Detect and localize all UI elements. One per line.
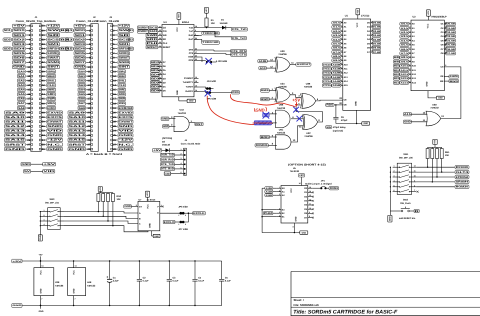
svg-text:PHI: PHI (147, 42, 158, 45)
svg-text:10K: 10K (117, 198, 122, 201)
svg-text:SA7: SA7 (79, 102, 86, 105)
svg-text:3: 3 (160, 80, 161, 83)
svg-text:GND: GND (438, 97, 443, 100)
svg-text:SINT: SINT (47, 66, 60, 69)
svg-text:2: 2 (279, 189, 280, 192)
svg-text:13: 13 (309, 194, 311, 197)
svg-text:GND: GND (39, 235, 42, 240)
svg-text:DTE_RxD: DTE_RxD (161, 168, 174, 171)
svg-text:GND: GND (426, 81, 429, 86)
svg-text:A6.5: A6.5 (401, 48, 410, 51)
blue cut mark on JP2 (205, 58, 211, 64)
svg-text:SD7: SD7 (75, 61, 87, 64)
svg-text:SA8: SA8 (79, 107, 86, 110)
svg-text:13: 13 (340, 66, 342, 69)
svg-text:7: 7 (409, 47, 410, 50)
capacitor C3 0.1uF (167, 260, 179, 306)
svg-text:2: 2 (394, 170, 395, 173)
svg-text:+5V: +5V (434, 139, 437, 143)
svg-text:A15: A15 (404, 113, 412, 116)
svg-text:SA11: SA11 (5, 121, 27, 124)
svg-text:SD2: SD2 (75, 38, 87, 41)
svg-text:GND: GND (47, 134, 62, 137)
svg-text:10K: 10K (445, 154, 450, 157)
svg-text:+5V: +5V (205, 8, 208, 12)
svg-text:CS: CS (163, 26, 167, 29)
svg-text:B14: B14 (394, 82, 400, 85)
svg-text:GND: GND (75, 66, 86, 69)
svg-text:9: 9 (414, 179, 415, 182)
ground flag SW bus (388, 211, 392, 222)
svg-text:RESET: RESET (163, 46, 171, 49)
svg-text:CLK: CLK (163, 42, 168, 45)
svg-text:BD7: BD7 (151, 61, 160, 64)
svg-text:GND: GND (22, 163, 31, 166)
GND rail wire (22, 305, 222, 307)
svg-text:EPROM4: EPROM4 (456, 176, 469, 179)
U4 serial pins TxD RxD (189, 25, 199, 41)
svg-text:A10.5: A10.5 (401, 65, 409, 68)
connector J1 Conn_02x28_Top_Bottom (3, 16, 69, 151)
svg-text:GND: GND (149, 223, 152, 228)
wire DTE to label (199, 49, 215, 51)
svg-text:VCC: VCC (426, 23, 429, 28)
svg-text:14: 14 (340, 71, 342, 74)
svg-text:SRD: SRD (47, 93, 55, 96)
svg-text:HM62256BLP: HM62256BLP (432, 16, 448, 19)
svg-text:C/D: C/D (163, 30, 167, 33)
svg-text:D7.5B: D7.5B (373, 51, 381, 54)
svg-text:add RESET btn: add RESET btn (399, 217, 416, 220)
label RXC0CUR on RxC (194, 38, 202, 40)
svg-text:GND: GND (355, 101, 358, 106)
resistor network RN2 10K (97, 186, 122, 201)
svg-text:10: 10 (309, 207, 311, 210)
U7 ground wire (152, 231, 161, 238)
jumper JP5 5/2B bridged (199, 91, 232, 100)
svg-text:5: 5 (409, 38, 410, 41)
svg-text:+5V: +5V (146, 192, 149, 196)
+5V rail label (12, 259, 23, 263)
svg-text:SWR: SWR (119, 98, 126, 101)
svg-text:D6.5B: D6.5B (446, 48, 455, 51)
blue label box on U6B pin4 (263, 113, 277, 117)
svg-text:5: 5 (160, 72, 161, 75)
svg-text:SND: SND (119, 125, 133, 128)
svg-text:PHI2: PHI2 (264, 212, 273, 215)
svg-text:DTE: DTE (189, 49, 194, 52)
svg-text:SA10: SA10 (69, 116, 87, 119)
svg-text:WR: WR (163, 34, 167, 37)
svg-text:SIORQ: SIORQ (119, 52, 129, 55)
svg-text:DTE_TxC: DTE_TxC (232, 37, 246, 40)
U1 data pins D0-D7 (367, 20, 381, 53)
svg-text:SA2: SA2 (79, 79, 86, 82)
svg-text:74HC02: 74HC02 (178, 112, 187, 115)
svg-text:3: 3 (409, 30, 410, 33)
svg-text:GND: GND (119, 134, 133, 137)
svg-text:3: 3 (394, 175, 395, 178)
svg-text:0.1uF: 0.1uF (198, 280, 205, 283)
svg-text:A9.5: A9.5 (333, 59, 342, 62)
svg-text:D2.5B: D2.5B (446, 31, 455, 34)
svg-text:D1.5B: D1.5B (373, 26, 381, 29)
power unit U4E 74HC32 (68, 260, 96, 306)
svg-text:SA10: SA10 (5, 116, 26, 119)
svg-text:A8.5: A8.5 (401, 56, 410, 59)
svg-text:10: 10 (414, 175, 416, 178)
svg-text:OE: OE (344, 104, 348, 107)
svg-text:15: 15 (309, 186, 311, 189)
svg-text:7: 7 (41, 298, 42, 301)
svg-text:SIORQ: SIORQ (47, 52, 59, 55)
svg-text:RD5: RD5 (326, 104, 334, 107)
svg-text:GND: GND (165, 172, 170, 175)
svg-text:VID: VID (119, 130, 134, 133)
U5 VCC flag (299, 174, 305, 186)
svg-text:VCC: VCC (290, 188, 293, 193)
svg-text:A7.5: A7.5 (333, 51, 342, 54)
SW1 left bus to ground (390, 167, 391, 211)
blue highlighted label on U6B pin5 (254, 121, 277, 125)
svg-text:3: 3 (279, 193, 280, 196)
U5 select input pins (265, 186, 286, 197)
svg-text:SNMI: SNMI (119, 61, 130, 64)
svg-text:74HC02: 74HC02 (430, 107, 439, 110)
svg-text:U6C: U6C (279, 129, 284, 132)
svg-text:12: 12 (414, 165, 416, 168)
svg-text:8251A: 8251A (182, 21, 189, 24)
svg-text:BD5: BD5 (151, 69, 160, 72)
svg-text:DSR_RxD: DSR_RxD (161, 158, 174, 161)
svg-text:11: 11 (309, 203, 311, 206)
svg-text:GND: GND (389, 216, 392, 221)
label DTE_RTS (231, 49, 247, 52)
svg-text:8: 8 (409, 51, 410, 54)
svg-text:A1.5: A1.5 (333, 26, 342, 29)
svg-text:SRST: SRST (147, 46, 158, 49)
svg-text:27C10: 27C10 (323, 63, 332, 66)
svg-text:23: 23 (195, 55, 197, 58)
svg-text:DSRDY: DSRDY (138, 26, 148, 29)
svg-text:SA1: SA1 (18, 75, 25, 78)
svg-text:DSR_TxD: DSR_TxD (161, 154, 174, 157)
svg-text:A5.5: A5.5 (333, 43, 342, 46)
svg-text:TxEMPTY: TxEMPTY (183, 81, 194, 84)
svg-text:CLK: CLK (119, 84, 126, 87)
svg-text:GND: GND (119, 148, 133, 151)
svg-text:U3D: U3D (280, 50, 285, 53)
svg-text:SA8: SA8 (18, 107, 25, 110)
svg-text:D0.5B: D0.5B (373, 22, 381, 25)
svg-text:DTE_RTS: DTE_RTS (231, 50, 246, 53)
svg-text:SD3: SD3 (4, 38, 12, 41)
note 470pF delay optional (326, 126, 347, 133)
svg-text:19: 19 (195, 25, 197, 28)
svg-text:RXD: RXD (232, 91, 239, 94)
svg-text:11: 11 (340, 58, 342, 61)
svg-text:SD3: SD3 (13, 43, 26, 46)
wire TxC to label (199, 31, 216, 33)
svg-text:7: 7 (341, 41, 342, 44)
svg-text:SRFSH: SRFSH (119, 48, 130, 51)
title block frame (291, 272, 480, 316)
svg-text:+5V: +5V (75, 25, 86, 28)
svg-text:WE: WE (440, 80, 444, 83)
svg-text:BA9: BA9 (261, 89, 269, 92)
U7 ST gnd input (124, 204, 138, 208)
svg-text:VCC: VCC (72, 270, 75, 275)
svg-text:SBAK: SBAK (47, 75, 55, 78)
svg-text:D2.5B: D2.5B (373, 30, 381, 33)
svg-text:16: 16 (299, 182, 301, 185)
svg-text:RN1: RN1 (445, 151, 450, 154)
svg-text:GND: GND (72, 288, 75, 293)
svg-text:SA7: SA7 (18, 102, 25, 105)
svg-text:+5V: +5V (427, 10, 430, 14)
svg-text:A10B: A10B (333, 63, 341, 66)
svg-text:SA11: SA11 (69, 121, 87, 124)
svg-text:7: 7 (414, 189, 415, 192)
connector J2 Conn_01x28 (66, 16, 99, 151)
power flag above U2 (427, 10, 431, 20)
svg-text:ROM30: ROM30 (456, 186, 469, 189)
svg-text:D3.5B: D3.5B (446, 35, 455, 38)
J4 GND pin (164, 172, 179, 175)
svg-text:GND: GND (13, 66, 25, 69)
blue cut mark on JP5 (205, 90, 211, 96)
svg-text:1: 1 (178, 214, 179, 217)
SW3 left bus and ground (38, 211, 42, 241)
svg-text:+5V: +5V (178, 14, 181, 18)
svg-text:25: 25 (159, 41, 161, 44)
svg-text:Conn_01x06_Male: Conn_01x06_Male (181, 143, 201, 146)
svg-text:EXCLK: EXCLK (193, 212, 205, 215)
svg-text:SA15: SA15 (69, 139, 87, 142)
red +5V annotation with arrow (292, 98, 301, 107)
svg-text:6: 6 (180, 171, 181, 174)
gate U6D 74HC02 (404, 103, 445, 126)
power unit U3E 74HC86 (34, 260, 64, 306)
svg-text:U6B: U6B (279, 104, 284, 107)
svg-text:D0.5B: D0.5B (446, 23, 455, 26)
svg-text:Sheet: /: Sheet: / (294, 298, 304, 302)
svg-text:74LS138: 74LS138 (290, 170, 300, 173)
U4 status pins SYNDET TxEMPTY TxRDY RxRDY (183, 76, 199, 93)
svg-text:A0.5: A0.5 (333, 22, 342, 25)
svg-text:TXD0CUR: TXD0CUR (203, 32, 219, 35)
svg-text:VCC: VCC (40, 270, 43, 275)
connector J4 Conn_01x06_Male (180, 139, 201, 176)
note OPTION D2 1N4148 (162, 137, 172, 147)
svg-text:D4.5B: D4.5B (446, 40, 455, 43)
wire TxD to D1 (199, 27, 223, 29)
svg-text:SA14: SA14 (5, 134, 26, 137)
label RXD (232, 91, 240, 94)
svg-text:SWR: SWR (47, 98, 55, 101)
svg-text:4: 4 (394, 179, 395, 182)
svg-text:BD6: BD6 (151, 65, 160, 68)
U4 modem pins DTR CTS DSR DTS (188, 48, 198, 63)
svg-text:1: 1 (180, 148, 181, 151)
svg-text:SRES: SRES (47, 102, 55, 105)
svg-text:SA12: SA12 (5, 125, 26, 128)
svg-text:27C13: 27C13 (323, 76, 332, 79)
label DTE_CTS (199, 53, 227, 55)
svg-text:SD5: SD5 (13, 52, 26, 55)
U4 data bus pins D7-D0 (150, 60, 166, 93)
U2 data pins (441, 22, 456, 56)
svg-text:SR: SR (119, 34, 130, 37)
svg-text:6: 6 (279, 207, 280, 210)
svg-text:EXROM: EXROM (119, 107, 133, 110)
svg-text:SNMI: SNMI (47, 61, 59, 64)
svg-text:GND: GND (302, 231, 307, 234)
svg-text:GND: GND (189, 100, 194, 103)
svg-text:GND: GND (39, 310, 44, 313)
svg-text:EXWAIT: EXWAIT (47, 121, 62, 124)
svg-text:A6.5: A6.5 (333, 47, 342, 50)
svg-text:SINT: SINT (119, 66, 130, 69)
svg-text:22: 22 (159, 29, 161, 32)
svg-text:U3B: U3B (306, 82, 311, 85)
+5V flag on rail (39, 254, 43, 262)
U2 CS OE WE pins (440, 64, 459, 83)
GND rail label (12, 304, 23, 308)
svg-text:SM1: SM1 (119, 43, 131, 46)
svg-text:DCB: DCB (188, 56, 193, 59)
svg-text:CTS: CTS (189, 52, 194, 55)
GND flag on rail (39, 305, 44, 313)
svg-text:RxC: RxC (189, 38, 194, 41)
switch SW2 SW_Push reset (390, 199, 419, 213)
svg-text:0.1uF: 0.1uF (225, 280, 232, 283)
svg-text:A2.5: A2.5 (401, 31, 410, 34)
svg-text:A3.5: A3.5 (401, 35, 410, 38)
svg-text:470pF: 470pF (341, 119, 348, 122)
gate U3D 74HC86 top (258, 50, 311, 72)
svg-text:EXRO: EXRO (47, 107, 55, 110)
svg-text:74HC86: 74HC86 (278, 53, 287, 56)
svg-text:SA5: SA5 (18, 93, 25, 96)
svg-text:SRD: SRD (147, 38, 158, 41)
svg-text:3.3uF: 3.3uF (113, 280, 120, 283)
svg-text:RxD: RxD (189, 34, 194, 37)
svg-text:10: 10 (340, 54, 342, 57)
svg-text:74HC32: 74HC32 (277, 107, 286, 110)
svg-text:GND: GND (12, 304, 22, 307)
svg-text:SW_Push: SW_Push (400, 202, 411, 205)
label DTE_TxC (232, 36, 247, 39)
svg-text:11: 11 (414, 170, 416, 173)
jumper JP2 5/2B (199, 57, 228, 63)
svg-text:3: 3 (44, 219, 45, 222)
svg-text:A12.5: A12.5 (401, 73, 409, 76)
diode D1 1N4148 (220, 19, 232, 30)
svg-text:SW2: SW2 (403, 199, 409, 202)
svg-text:2: 2 (185, 214, 186, 217)
resistor network RN1 10K (426, 139, 450, 158)
svg-text:SA0: SA0 (79, 70, 86, 73)
svg-text:4: 4 (341, 29, 342, 32)
svg-text:CS: CS (440, 66, 444, 69)
svg-text:A11.5: A11.5 (401, 69, 409, 72)
svg-text:Conn_01x28: Conn_01x28 (76, 20, 99, 23)
svg-text:+5V: +5V (39, 254, 43, 257)
svg-text:1: 1 (161, 204, 162, 207)
net stub VID pair below J1 (24, 170, 31, 173)
svg-text:3: 3 (341, 25, 342, 28)
svg-text:SA12: SA12 (69, 125, 87, 128)
U7 VCC flag (146, 191, 150, 201)
U5 enable pins (263, 207, 285, 218)
svg-text:8: 8 (293, 226, 294, 229)
svg-text:Title: SORDm5 CARTRIDGE for BA: Title: SORDm5 CARTRIDGE for BASIC-F (293, 310, 398, 316)
svg-text:2: 2 (409, 26, 410, 29)
svg-text:D6.5B: D6.5B (373, 47, 381, 50)
svg-text:D4.5B: D4.5B (373, 38, 381, 41)
svg-text:B13: B13 (394, 77, 400, 80)
gate U6C 74HC32 (255, 129, 291, 150)
wire U3C out loop to U3B lower input (296, 105, 322, 122)
svg-text:SD5: SD5 (4, 48, 12, 51)
svg-text:27C15: 27C15 (323, 84, 332, 87)
svg-text:SW1: SW1 (403, 153, 409, 156)
svg-text:BRD: BRD (261, 136, 269, 139)
svg-text:A13: A13 (260, 67, 267, 70)
svg-text:SD1: SD1 (13, 34, 26, 37)
svg-text:JP6 5/2D: JP6 5/2D (178, 206, 188, 209)
svg-text:TxC: TxC (189, 30, 194, 33)
svg-text:RN2: RN2 (117, 195, 122, 198)
svg-text:Conn_01x28: Conn_01x28 (97, 20, 120, 23)
svg-text:GND: GND (47, 148, 62, 151)
svg-text:BRP: BRP (163, 125, 169, 128)
svg-text:VID: VID (43, 170, 55, 173)
svg-text:A2.5: A2.5 (333, 30, 342, 33)
svg-text:SD4: SD4 (75, 48, 87, 51)
svg-text:DTE_TxD: DTE_TxD (161, 163, 174, 166)
svg-text:VCC: VCC (176, 27, 179, 32)
gate U6B 74HC32 (272, 104, 290, 128)
svg-text:5: 5 (180, 167, 181, 170)
U1 address pins A0-A15 (323, 20, 349, 87)
svg-text:SMRE: SMRE (47, 89, 55, 92)
svg-text:U6D: U6D (432, 103, 437, 106)
svg-text:2: 2 (136, 204, 137, 207)
svg-text:9: 9 (309, 211, 310, 214)
svg-text:R: R (415, 210, 419, 213)
svg-text:GND: GND (154, 235, 159, 238)
power flag VCC above U4 (177, 13, 181, 25)
svg-text:26: 26 (159, 45, 161, 48)
svg-text:(optional): (optional) (333, 129, 343, 132)
svg-text:A5.5: A5.5 (401, 44, 410, 47)
svg-text:RST: RST (195, 123, 203, 126)
svg-text:D5.5B: D5.5B (446, 44, 455, 47)
svg-text:U3E: U3E (55, 281, 60, 284)
svg-text:A13OUT: A13OUT (297, 63, 311, 66)
svg-text:18: 18 (195, 80, 197, 83)
jumper JP4 5/2D bridged (199, 80, 217, 90)
svg-text:2: 2 (160, 84, 161, 87)
svg-text:SA9: SA9 (69, 111, 87, 114)
svg-text:-12V: -12V (47, 139, 63, 142)
svg-text:SA13: SA13 (5, 130, 26, 133)
wire JP7 to JP6 junction (185, 213, 189, 222)
IC U1 27C512 EPROM (343, 15, 371, 111)
svg-text:JP5 5/2B: JP5 5/2B (207, 98, 217, 101)
